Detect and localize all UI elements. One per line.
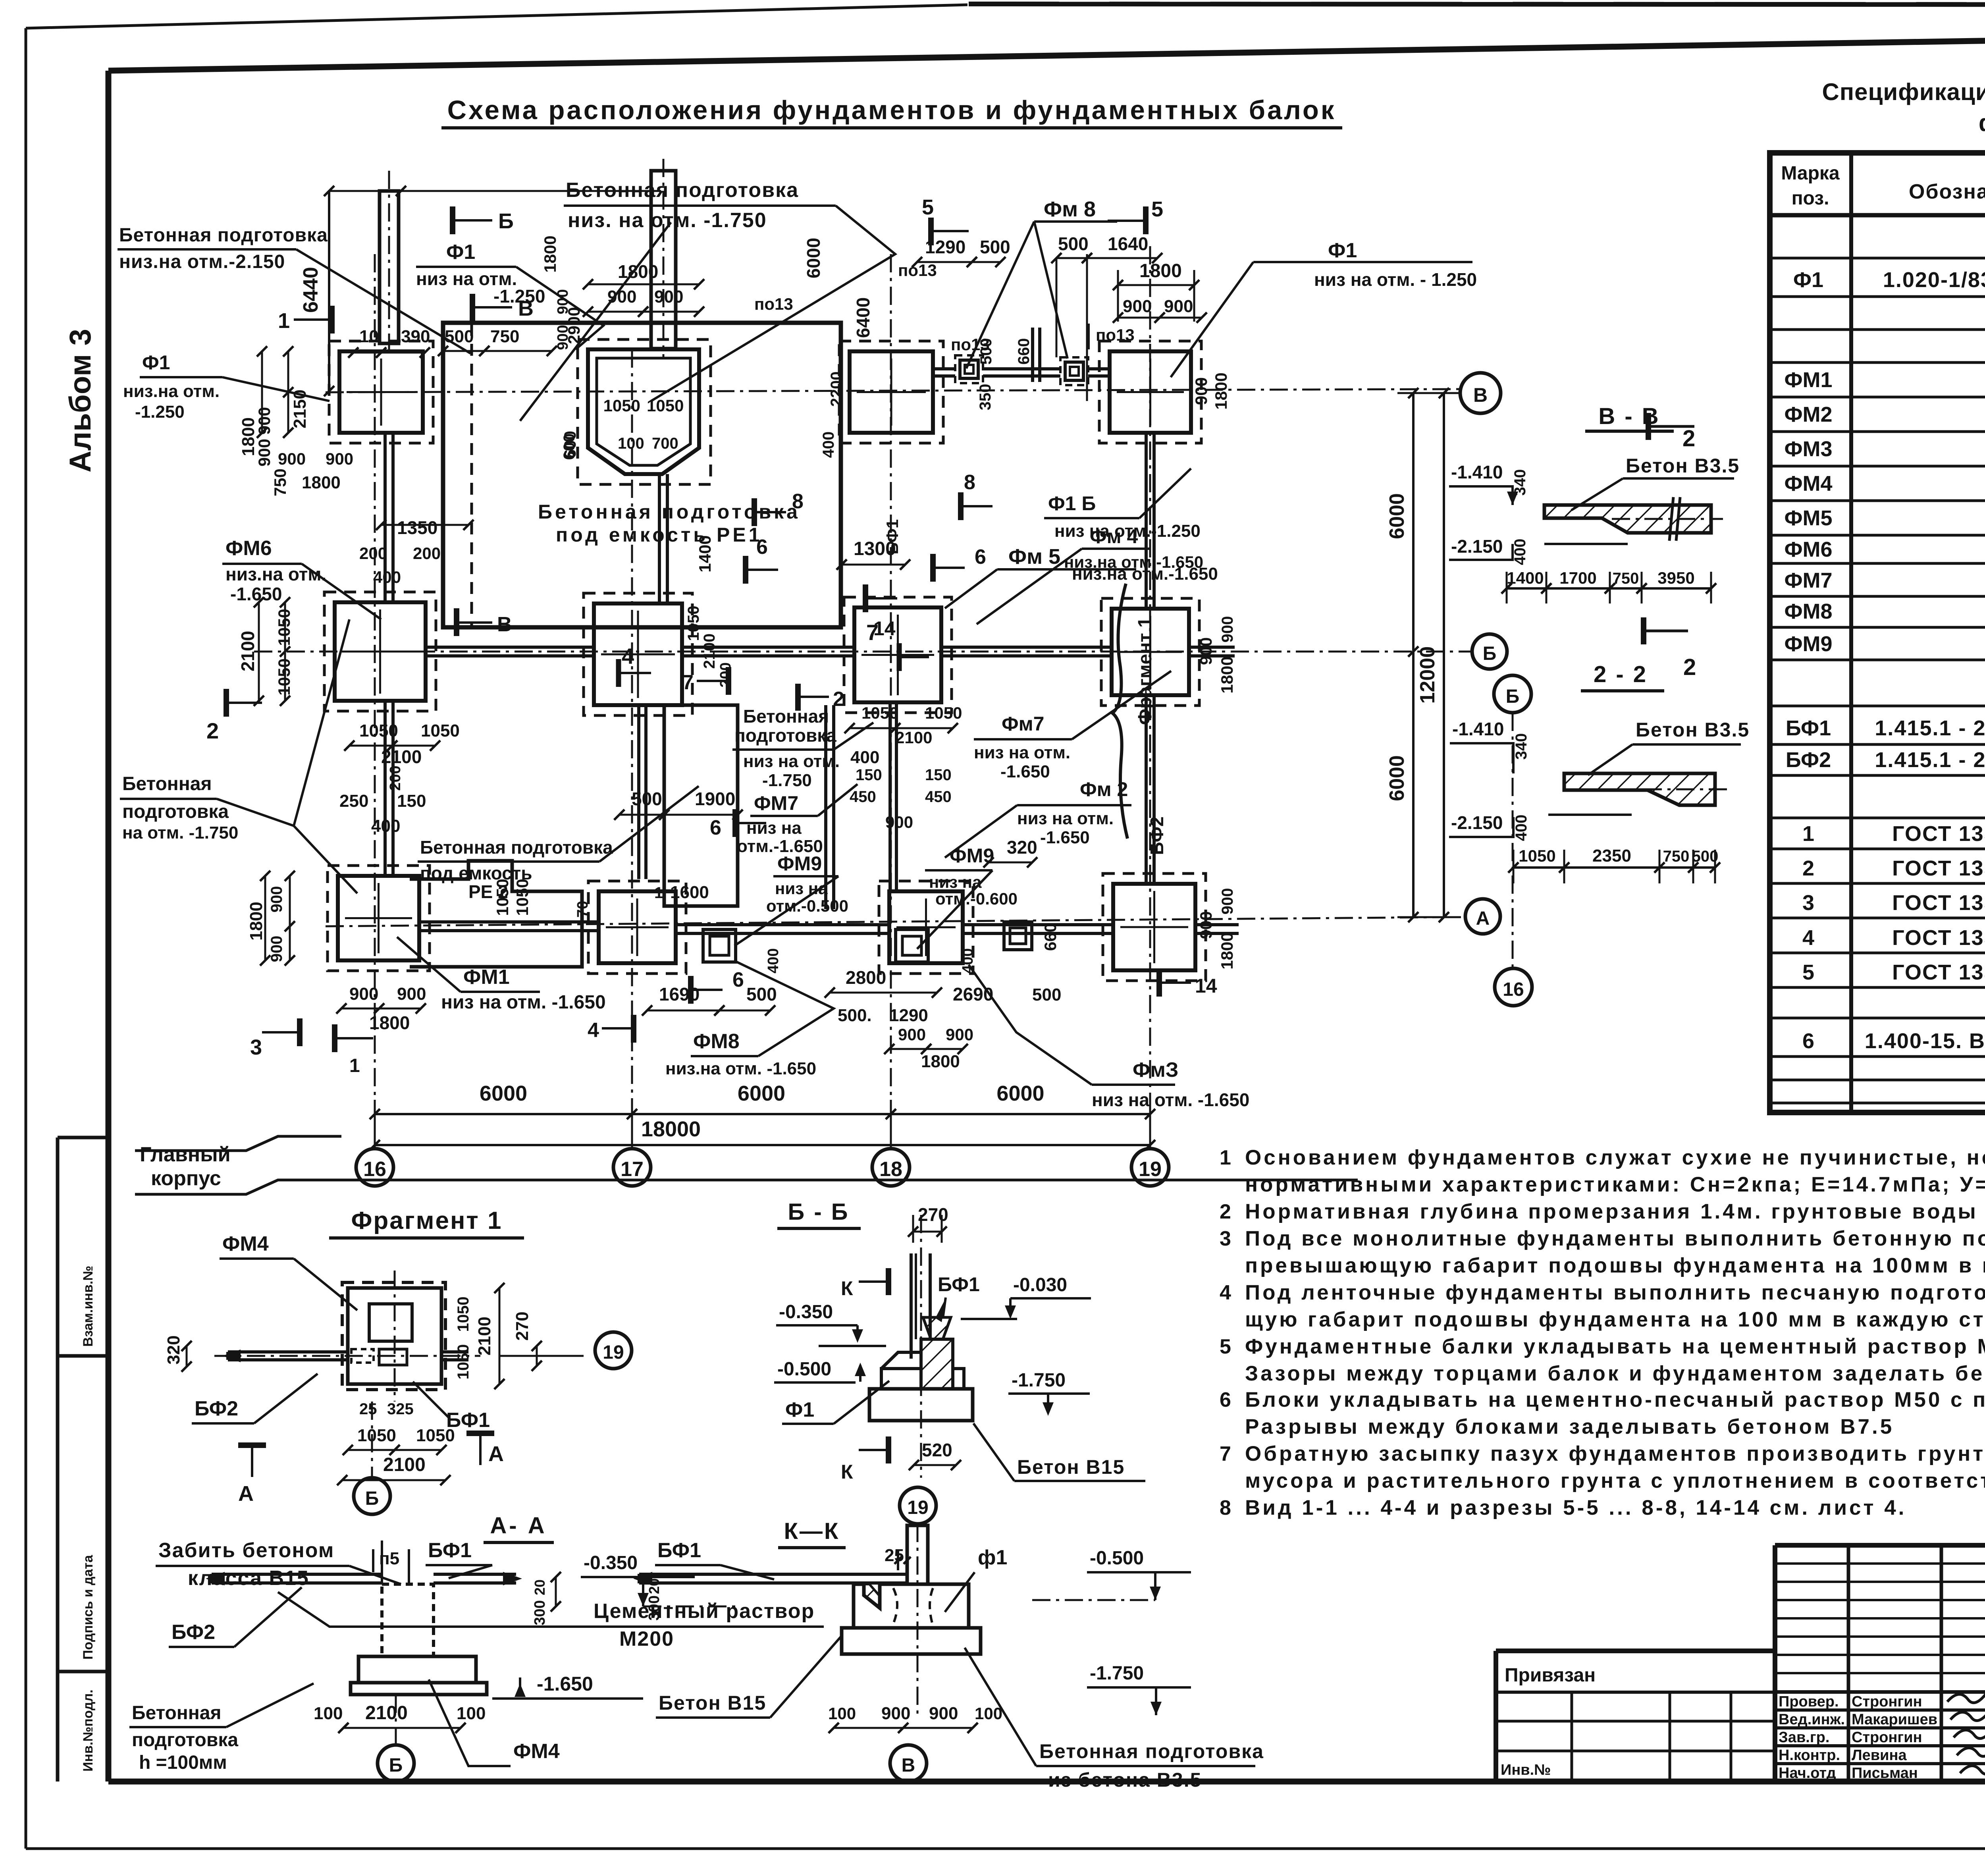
svg-text:по13: по13 [1096, 326, 1135, 344]
svg-text:Фрагмент 1: Фрагмент 1 [351, 1207, 503, 1234]
svg-text:1640: 1640 [1108, 233, 1148, 254]
svg-text:2: 2 [1683, 654, 1696, 680]
svg-text:Обозначение: Обозначение [1909, 180, 1985, 203]
left dim chains row B [258, 602, 260, 701]
grid bubble 16 right [1495, 968, 1532, 1006]
svg-text:450: 450 [850, 788, 876, 806]
svg-text:ФМ8: ФМ8 [693, 1030, 740, 1053]
svg-text:6: 6 [710, 816, 721, 839]
svg-text:1.020-1/83.1-130.0: 1.020-1/83.1-130.0 [1883, 268, 1985, 292]
svg-text:низ на отм. -1.650: низ на отм. -1.650 [441, 992, 606, 1013]
svg-text:4: 4 [622, 644, 634, 669]
svg-text:18000: 18000 [641, 1117, 701, 1141]
K-K beams [639, 1573, 907, 1576]
svg-text:поз.: поз. [1792, 188, 1829, 209]
svg-text:2 - 2: 2 - 2 [1594, 661, 1648, 687]
svg-text:ФМ4: ФМ4 [513, 1740, 560, 1763]
svg-text:750: 750 [1663, 848, 1690, 865]
svg-text:1: 1 [1802, 822, 1814, 846]
svg-text:Б: Б [1483, 643, 1497, 664]
fragment drawing [342, 1282, 445, 1390]
svg-text:1050: 1050 [421, 721, 460, 740]
svg-text:340: 340 [1511, 469, 1529, 496]
svg-text:900: 900 [898, 1025, 926, 1044]
svg-text:ГОСТ 13579 - 78: ГОСТ 13579 - 78 [1892, 960, 1985, 984]
svg-text:ФМ1: ФМ1 [1784, 368, 1832, 392]
svg-text:1400: 1400 [696, 535, 714, 572]
svg-text:200: 200 [359, 544, 387, 563]
svg-text:2150: 2150 [290, 389, 310, 428]
svg-text:Альбом 3: Альбом 3 [64, 329, 97, 472]
svg-text:Вид 1-1 ... 4-4 и разрезы: Вид 1-1 ... 4-4 и разрезы 5-5 ... 8-8, 1… [1245, 1496, 1906, 1519]
svg-text:400: 400 [765, 948, 782, 973]
svg-text:А- А: А- А [490, 1513, 547, 1539]
svg-text:600: 600 [561, 434, 578, 460]
svg-text:ФМ4: ФМ4 [1784, 472, 1832, 496]
svg-text:ФМ1: ФМ1 [463, 966, 510, 989]
svg-text:Ф1 Б: Ф1 Б [1048, 492, 1096, 515]
svg-text:БФ1: БФ1 [657, 1539, 701, 1562]
svg-text:1050: 1050 [455, 1344, 472, 1380]
B-B column BF1 [910, 1253, 913, 1359]
svg-text:2100: 2100 [383, 1454, 426, 1475]
svg-text:340: 340 [1513, 733, 1530, 760]
section A marks [238, 1442, 266, 1448]
svg-text:Бетон В15: Бетон В15 [659, 1692, 766, 1714]
svg-text:900: 900 [929, 1704, 958, 1723]
svg-text:900: 900 [326, 449, 353, 468]
svg-text:900: 900 [1123, 297, 1152, 316]
svg-text:мусора и растительного грунта: мусора и растительного грунта с уплотнен… [1245, 1469, 1985, 1492]
svg-text:-1.410: -1.410 [1451, 462, 1503, 482]
concrete pad region RE1 [443, 323, 841, 627]
svg-text:1050: 1050 [357, 1426, 396, 1445]
svg-text:270: 270 [513, 1311, 532, 1340]
svg-text:Разрывы между блоками заделыва: Разрывы между блоками заделывать бетоном… [1245, 1415, 1894, 1438]
svg-text:2800: 2800 [846, 967, 886, 988]
svg-text:БФ2: БФ2 [1786, 748, 1831, 772]
svg-text:5: 5 [922, 195, 934, 219]
svg-text:Бетон В3.5: Бетон В3.5 [1636, 719, 1750, 741]
svg-text:100: 100 [457, 1704, 486, 1723]
svg-text:-1.750: -1.750 [1090, 1663, 1144, 1684]
left top dimension 6440 [328, 191, 330, 391]
grid row V [326, 389, 1464, 392]
svg-text:Бетонная подготовка: Бетонная подготовка [119, 225, 328, 246]
svg-text:Привязан: Привязан [1505, 1665, 1596, 1686]
svg-text:Фм 4: Фм 4 [1090, 525, 1138, 548]
section mark 6 c [688, 976, 694, 1004]
svg-text:6: 6 [1802, 1029, 1814, 1053]
left dim chains row V [261, 351, 263, 433]
svg-text:1800: 1800 [1212, 372, 1230, 409]
svg-text:Инв.№: Инв.№ [1501, 1762, 1551, 1778]
svg-text:К: К [841, 1277, 853, 1300]
svg-text:1600: 1600 [670, 883, 709, 902]
svg-text:900: 900 [1197, 911, 1215, 939]
svg-text:низ на отм.: низ на отм. [974, 743, 1070, 762]
svg-text:1800: 1800 [618, 261, 658, 282]
grid row B [254, 651, 1474, 653]
svg-text:400: 400 [1511, 539, 1529, 565]
grid row A [326, 917, 1445, 926]
svg-text:1.415.1 - 2.1 - 3 - 45: 1.415.1 - 2.1 - 3 - 45 [1875, 716, 1985, 740]
svg-text:низ на отм. - 1.250: низ на отм. - 1.250 [1314, 269, 1477, 290]
column stub 16 top [380, 191, 399, 343]
svg-text:900: 900 [654, 287, 683, 307]
svg-text:ФМ8: ФМ8 [1784, 600, 1832, 623]
section G-G dim chain [1513, 866, 1715, 869]
svg-text:300: 300 [532, 1600, 548, 1625]
svg-text:Ф1: Ф1 [1793, 268, 1823, 292]
svg-text:900: 900 [397, 984, 426, 1004]
small pad FM8 row A b [896, 929, 928, 962]
svg-text:12000: 12000 [1416, 646, 1439, 704]
concrete pad region RE2 [410, 861, 582, 967]
svg-text:500: 500 [445, 327, 474, 346]
beam mid top vertical [1031, 328, 1034, 382]
section mark 1 left [329, 306, 335, 334]
svg-text:Фм 2: Фм 2 [1080, 778, 1128, 800]
svg-text:450: 450 [925, 788, 952, 806]
tank RE1 outline [588, 349, 699, 474]
svg-text:Бетон В15: Бетон В15 [1017, 1456, 1125, 1478]
svg-text:500: 500 [1692, 848, 1719, 865]
svg-text:Бетонная подготовка: Бетонная подготовка [420, 837, 613, 858]
svg-text:Бетонная: Бетонная [122, 773, 212, 794]
beam col 16 vertical [384, 433, 387, 602]
section mark 6 a [743, 556, 748, 584]
fragment grid bubble 19 [595, 1332, 632, 1369]
svg-text:ФМ7: ФМ7 [754, 792, 798, 814]
svg-text:900: 900 [881, 1704, 910, 1723]
svg-text:2100: 2100 [237, 631, 258, 671]
svg-text:на отм. -1.750: на отм. -1.750 [122, 823, 238, 843]
svg-text:5: 5 [1220, 1335, 1231, 1358]
svg-text:низ на: низ на [746, 818, 802, 838]
svg-text:-1.650: -1.650 [230, 584, 282, 604]
svg-text:150: 150 [925, 766, 952, 784]
beam col 18 vertical [824, 705, 827, 909]
svg-text:-1.750: -1.750 [762, 771, 812, 790]
svg-text:1050: 1050 [1519, 846, 1555, 865]
svg-text:2: 2 [1220, 1200, 1231, 1223]
svg-text:2100: 2100 [365, 1702, 408, 1724]
svg-text:Бетонная подготовка: Бетонная подготовка [1039, 1740, 1264, 1762]
svg-text:ФМ6: ФМ6 [1784, 538, 1832, 561]
scan edge artifact top [969, 4, 1985, 5]
svg-text:Стронгин: Стронгин [1852, 1693, 1922, 1710]
section mark V row B [454, 608, 459, 636]
small pad FM9 row A c [1004, 922, 1032, 950]
svg-text:300: 300 [646, 1595, 663, 1620]
svg-text:подготовка: подготовка [734, 725, 836, 746]
svg-text:1050: 1050 [455, 1297, 472, 1332]
svg-text:под емкость РЕ1: под емкость РЕ1 [556, 524, 763, 546]
section mark 6 d [732, 809, 738, 837]
foundation pad FM4 row B col 18 [854, 607, 941, 702]
svg-text:ФМ3: ФМ3 [1784, 437, 1832, 461]
inner frame border [108, 32, 1985, 71]
svg-text:320: 320 [164, 1335, 183, 1364]
svg-text:500: 500 [746, 984, 777, 1005]
svg-text:Б: Б [365, 1488, 379, 1509]
svg-text:Подпись и дата: Подпись и дата [81, 1554, 96, 1660]
svg-text:150: 150 [856, 766, 882, 784]
svg-text:ФМ7: ФМ7 [1784, 569, 1832, 592]
svg-text:1290: 1290 [925, 237, 966, 257]
svg-text:6400: 6400 [853, 297, 873, 338]
svg-text:8: 8 [1220, 1496, 1231, 1519]
svg-text:ГОСТ 13579 - 78: ГОСТ 13579 - 78 [1892, 822, 1985, 846]
svg-text:1400: 1400 [1507, 569, 1544, 587]
svg-text:6000: 6000 [480, 1082, 527, 1105]
section mark 2 left [224, 689, 229, 717]
left stamp strip [56, 1138, 60, 1782]
A-A grid bubble B [378, 1745, 414, 1782]
svg-text:В: В [1473, 384, 1488, 406]
svg-text:100: 100 [975, 1704, 1002, 1723]
section mark 7 a [726, 667, 731, 695]
svg-text:20: 20 [532, 1579, 548, 1595]
svg-text:900: 900 [278, 449, 306, 468]
small pad FM8 row V a [960, 360, 978, 378]
svg-text:ФМ9: ФМ9 [777, 852, 822, 875]
svg-text:1300: 1300 [854, 538, 896, 559]
foundation pad row B col 19 [1112, 609, 1189, 695]
svg-text:низ.на отм. -1.650: низ.на отм. -1.650 [665, 1059, 816, 1078]
svg-text:1050: 1050 [359, 721, 398, 740]
svg-text:1.400-15. В1. 540 - 01: 1.400-15. В1. 540 - 01 [1865, 1029, 1985, 1053]
fragment beams [228, 1350, 348, 1353]
svg-text:2350: 2350 [1592, 846, 1631, 866]
svg-text:Схема расположения фундаментов: Схема расположения фундаментов и фундаме… [447, 95, 1336, 125]
small pad FM8 row A a [703, 929, 736, 962]
svg-text:К—К: К—К [784, 1518, 840, 1544]
svg-text:низ на отм. -1.650: низ на отм. -1.650 [1092, 1089, 1249, 1110]
svg-text:1050: 1050 [925, 704, 962, 722]
svg-text:Бетонная: Бетонная [132, 1702, 221, 1724]
svg-text:Фундаментные балки укладывать: Фундаментные балки укладывать на цементн… [1245, 1335, 1985, 1358]
bottom dimension 18000 [375, 1144, 1150, 1146]
svg-text:Бетон В3.5: Бетон В3.5 [1626, 455, 1740, 477]
svg-text:900: 900 [1192, 377, 1210, 405]
svg-text:Макаришев: Макаришев [1852, 1711, 1937, 1728]
B-B foundation blocks [869, 1389, 973, 1421]
K mark top [859, 1280, 888, 1283]
svg-text:250: 250 [339, 791, 368, 811]
svg-text:19: 19 [603, 1342, 624, 1363]
svg-text:900: 900 [607, 287, 636, 307]
svg-text:6440: 6440 [299, 267, 322, 313]
svg-text:Инв.№подл.: Инв.№подл. [81, 1689, 96, 1772]
svg-text:500: 500 [977, 338, 995, 365]
svg-text:400: 400 [850, 748, 879, 767]
svg-text:Зав.гр.: Зав.гр. [1779, 1729, 1829, 1746]
pad 4 section flag [616, 659, 621, 687]
section mark B top [450, 206, 455, 234]
svg-text:В: В [902, 1755, 915, 1776]
grid bubble 19 [1131, 1149, 1169, 1186]
svg-text:2: 2 [206, 718, 219, 743]
svg-text:8: 8 [964, 471, 975, 494]
fragment grid bubble B [354, 1478, 390, 1514]
section G-G slab [1564, 773, 1715, 805]
svg-text:низ.на отм.: низ.на отм. [123, 382, 220, 401]
grid line 17 [631, 349, 633, 1148]
svg-text:щую габарит подошвы фундамента: щую габарит подошвы фундамента на 100 мм… [1245, 1308, 1985, 1331]
svg-text:400: 400 [1513, 815, 1530, 841]
svg-text:низ на отм.: низ на отм. [743, 752, 840, 771]
svg-text:750: 750 [490, 327, 519, 346]
svg-text:Обратную засыпку пазух фундаме: Обратную засыпку пазух фундаментов произ… [1245, 1442, 1985, 1465]
svg-text:Блоки укладывать на цементно-п: Блоки укладывать на цементно-песчаный ра… [1245, 1388, 1985, 1411]
grid bubble B1 [1472, 634, 1507, 669]
svg-text:700: 700 [652, 435, 678, 452]
svg-text:БФ1: БФ1 [938, 1273, 980, 1296]
svg-text:1800: 1800 [239, 417, 258, 456]
svg-text:по13: по13 [754, 295, 793, 313]
svg-text:900: 900 [1219, 888, 1236, 915]
svg-text:18: 18 [879, 1158, 902, 1181]
svg-text:-0.500: -0.500 [777, 1359, 831, 1380]
svg-text:ГОСТ 13579 - 78: ГОСТ 13579 - 78 [1892, 926, 1985, 950]
svg-text:1050: 1050 [275, 609, 293, 646]
svg-text:БФ1: БФ1 [428, 1539, 472, 1562]
svg-text:6000: 6000 [996, 1082, 1044, 1105]
section mark 5 right [1143, 206, 1149, 234]
svg-text:20: 20 [646, 1578, 662, 1594]
svg-text:1800: 1800 [921, 1052, 960, 1071]
svg-text:3: 3 [1220, 1227, 1231, 1250]
svg-text:200: 200 [717, 662, 734, 687]
svg-text:3: 3 [1802, 891, 1814, 915]
svg-text:Ф1: Ф1 [142, 351, 170, 374]
outer frame [25, 28, 27, 1849]
svg-text:70: 70 [574, 901, 591, 918]
svg-text:2100: 2100 [381, 746, 422, 767]
svg-text:1050: 1050 [603, 396, 640, 415]
svg-text:Н.контр.: Н.контр. [1779, 1747, 1840, 1764]
svg-text:1: 1 [349, 1055, 360, 1076]
svg-text:16: 16 [1503, 979, 1524, 1000]
svg-text:Бетонная: Бетонная [743, 706, 829, 727]
svg-text:1800: 1800 [1139, 260, 1182, 281]
svg-text:900: 900 [1164, 297, 1193, 316]
svg-text:390: 390 [401, 327, 430, 346]
K-K grid bubble V [890, 1745, 927, 1782]
svg-text:Б - Б: Б - Б [788, 1199, 850, 1225]
svg-text:1800: 1800 [541, 235, 559, 272]
svg-text:А: А [1476, 908, 1490, 929]
svg-text:6: 6 [732, 968, 744, 991]
svg-text:Взам.инв.№: Взам.инв.№ [81, 1266, 96, 1347]
svg-text:Нормативная глубина промерзани: Нормативная глубина промерзания 1.4м. гр… [1245, 1200, 1985, 1223]
svg-text:ГОСТ 13579 - 78: ГОСТ 13579 - 78 [1892, 856, 1985, 880]
section mark 6 b [930, 554, 936, 582]
svg-text:1: 1 [1220, 1146, 1231, 1169]
svg-text:200: 200 [413, 544, 441, 563]
svg-text:Бетонная подготовка: Бетонная подготовка [566, 179, 799, 202]
svg-text:500: 500 [1032, 985, 1061, 1005]
svg-text:из бетона В3.5: из бетона В3.5 [1048, 1769, 1202, 1791]
svg-text:корпус: корпус [151, 1167, 221, 1190]
spec table grid [1770, 153, 1985, 1112]
title block [1773, 1545, 1777, 1782]
svg-text:А: А [238, 1482, 254, 1506]
right dimension 12000 [1443, 393, 1445, 917]
svg-text:-2.150: -2.150 [1451, 536, 1503, 557]
left dim chains row A [264, 876, 266, 960]
svg-text:отм.-0.600: отм.-0.600 [935, 889, 1018, 908]
svg-text:-1.650: -1.650 [1000, 762, 1050, 781]
K-K foundation [854, 1584, 969, 1628]
svg-text:ФМ4: ФМ4 [222, 1232, 269, 1255]
foundation pad FM1 row A col 16 [338, 876, 419, 960]
fragment centerlines [394, 1271, 396, 1402]
svg-text:Вед.инж.: Вед.инж. [1779, 1711, 1845, 1728]
foundation pad row B col 17 [594, 603, 682, 705]
svg-text:1050: 1050 [493, 879, 512, 916]
svg-text:25: 25 [885, 1546, 904, 1565]
B-B anchor wedge [923, 1317, 951, 1339]
svg-text:-1.750: -1.750 [1012, 1370, 1066, 1391]
svg-text:660: 660 [1015, 338, 1033, 365]
svg-text:Фм 8: Фм 8 [1044, 197, 1096, 221]
svg-text:270: 270 [918, 1204, 948, 1225]
svg-text:БФ2: БФ2 [195, 1397, 238, 1420]
svg-text:2100: 2100 [475, 1317, 494, 1355]
svg-text:ФМ2: ФМ2 [1784, 403, 1832, 426]
svg-text:-2.150: -2.150 [1451, 812, 1503, 833]
svg-text:1290: 1290 [889, 1006, 928, 1025]
svg-text:900: 900 [1219, 616, 1236, 643]
svg-text:2690: 2690 [953, 984, 993, 1005]
svg-text:БФ2: БФ2 [172, 1621, 215, 1644]
privyazan box [1496, 1648, 1775, 1653]
grid bubble 18 [872, 1149, 910, 1186]
svg-text:ф1: ф1 [978, 1546, 1007, 1569]
svg-text:4: 4 [588, 1019, 599, 1042]
svg-text:6: 6 [975, 546, 986, 569]
svg-text:900: 900 [1197, 637, 1215, 665]
svg-text:В: В [518, 297, 534, 320]
section mark 5 left [928, 218, 934, 245]
K-K column [917, 1524, 919, 1719]
svg-text:1900: 1900 [695, 789, 735, 809]
svg-text:1050: 1050 [275, 658, 293, 695]
svg-text:-0.030: -0.030 [1013, 1274, 1067, 1296]
A-A column block [382, 1584, 434, 1656]
svg-text:К: К [841, 1461, 853, 1483]
beams row V right [933, 367, 955, 370]
svg-text:-1.650: -1.650 [537, 1673, 593, 1695]
beam col 17 vertical [658, 474, 661, 603]
svg-text:Б: Б [498, 209, 514, 233]
svg-text:1800: 1800 [1218, 932, 1236, 969]
A-A beams [212, 1573, 382, 1576]
beams row B [426, 646, 594, 649]
right dimension chain 6000/6000 [1412, 393, 1415, 917]
svg-text:750: 750 [1613, 570, 1639, 587]
beams row A [419, 920, 599, 924]
svg-text:Стронгин: Стронгин [1852, 1729, 1922, 1746]
svg-text:4: 4 [1220, 1281, 1231, 1304]
svg-text:Фм7: Фм7 [1002, 713, 1044, 735]
section mark 14 b [1156, 969, 1162, 997]
svg-text:500: 500 [980, 237, 1010, 257]
svg-text:2100: 2100 [701, 634, 718, 669]
